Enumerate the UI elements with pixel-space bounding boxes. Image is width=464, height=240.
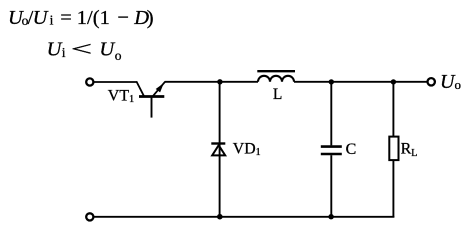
wire inductor to output terminal (294, 81, 428, 83)
node B capacitor tap (329, 79, 334, 84)
node E capacitor bottom (328, 214, 333, 219)
node C load tap (391, 79, 396, 84)
wire input to transistor (94, 81, 138, 83)
resistor RL wires (392, 82, 394, 137)
output terminal Uo (428, 78, 435, 85)
inductor core bar (257, 70, 295, 72)
bottom rail (94, 216, 395, 218)
inductor L (258, 76, 294, 82)
capacitor C wires (330, 82, 332, 145)
node A diode tap (217, 79, 222, 84)
capacitor C plates (321, 145, 342, 148)
diode VD1 vertical wire (219, 82, 221, 217)
node D diode bottom (217, 214, 223, 220)
resistor RL body (389, 137, 398, 161)
wire transistor to inductor (165, 81, 258, 83)
input terminal top-left (86, 78, 93, 85)
input terminal bottom-left (86, 213, 93, 220)
transistor VT1 (136, 81, 165, 117)
svg-text:C: C (346, 141, 357, 158)
diode VD1 triangle (212, 145, 225, 155)
diode VD1 cathode bar (211, 142, 225, 144)
svg-text:L: L (273, 86, 282, 103)
svg-text:Ui<Uo: Ui<Uo (47, 39, 122, 63)
